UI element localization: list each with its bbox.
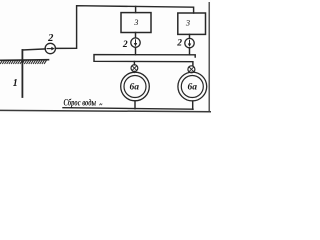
svg-text:2: 2	[176, 38, 182, 48]
svg-text:2: 2	[122, 40, 128, 50]
svg-text:6а: 6а	[187, 82, 197, 92]
svg-text:6а: 6а	[129, 82, 139, 92]
svg-text:3: 3	[133, 18, 138, 27]
svg-text:2: 2	[47, 33, 54, 44]
svg-text:1: 1	[13, 78, 18, 89]
svg-text:Сброс воды: Сброс воды	[64, 98, 97, 108]
svg-text:3: 3	[185, 19, 190, 28]
